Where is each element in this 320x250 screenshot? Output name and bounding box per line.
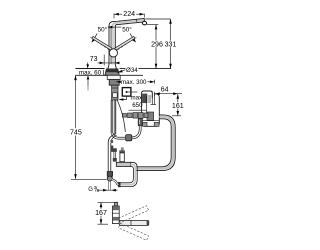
spout bend outer arc and top line — [109, 18, 144, 29]
hose A end fitting — [107, 172, 112, 177]
dimension 224 — [114, 10, 144, 18]
svg-text:G: G — [88, 187, 93, 193]
spray hose arc from shank to loop fitting and plug — [112, 100, 140, 138]
tube B (dark) — [113, 150, 115, 161]
elbow end cap — [118, 182, 121, 187]
washer plate under deck — [107, 75, 120, 79]
svg-text:64: 64 — [161, 86, 169, 93]
aerator nozzle at spout tip — [142, 21, 146, 25]
svg-text:224: 224 — [123, 10, 135, 18]
lever left (50° swing) — [90, 37, 113, 53]
svg-text:167: 167 — [95, 209, 107, 217]
hose bundle below shank — [111, 100, 116, 135]
tube C with cap — [119, 147, 125, 161]
dimension 331 — [145, 19, 177, 69]
label 50° left — [92, 26, 108, 43]
max.60 lower arrow — [87, 75, 90, 90]
outlet pipe elbow from box: right then down then left — [136, 115, 175, 171]
svg-text:745: 745 — [70, 128, 82, 136]
dashed arm swung up — [118, 206, 148, 223]
G 3/8 thread extension lines and dimension — [97, 181, 118, 191]
column base cone — [108, 65, 117, 69]
spout end cap — [143, 18, 145, 22]
svg-text:50°: 50° — [122, 26, 132, 34]
angle reference pointer at column — [108, 26, 122, 29]
svg-text:max. 300: max. 300 — [121, 79, 147, 86]
spray head joint line — [136, 19, 138, 22]
countertop deck top line — [76, 68, 172, 70]
label 50° right — [122, 26, 135, 43]
dimension 167 — [95, 202, 119, 224]
elbow pipe down-left from L-fitting — [120, 162, 137, 186]
countertop deck bottom line — [76, 74, 144, 76]
dimension 73 — [90, 55, 120, 66]
hose A curving left and down — [108, 134, 116, 172]
spout grey fill — [112, 20, 144, 27]
dimension 745 (left) — [69, 75, 107, 179]
label max. 300 dimension — [116, 79, 154, 86]
lever right (50° swing) — [113, 37, 136, 53]
plug connector below row — [138, 118, 142, 125]
faucet column — [109, 26, 115, 65]
L-fitting base under tubes — [116, 162, 130, 166]
bent leader from battery box to shank — [119, 97, 127, 101]
dimension 64 — [155, 86, 183, 95]
ball joint — [109, 49, 117, 57]
hose A ball nut — [107, 176, 112, 181]
svg-text:50°: 50° — [98, 26, 108, 34]
base flange (dark) on deck — [105, 69, 119, 75]
svg-text:331: 331 — [165, 40, 177, 48]
cylinder top nub — [114, 202, 117, 206]
dimension 296 — [147, 25, 163, 69]
max.60 upper arrow — [86, 63, 89, 69]
svg-text:296: 296 — [151, 40, 163, 48]
mounting nut — [109, 80, 119, 86]
control box body — [142, 91, 160, 126]
S-hose lower — [112, 180, 119, 185]
label G 3/8 — [88, 185, 99, 193]
inlet fittings row left of control box — [123, 113, 149, 119]
solid arm (side position) — [119, 220, 149, 225]
svg-text:Ø34: Ø34 — [126, 67, 138, 74]
spout bend inner arc and bottom line — [115, 22, 144, 26]
svg-text:161: 161 — [172, 102, 184, 110]
label Ø34 with diagonal leader — [117, 67, 138, 74]
cylinder body — [112, 206, 119, 224]
svg-text:73: 73 — [90, 56, 98, 63]
dashed arm swung down — [118, 223, 148, 240]
small hose remnant — [111, 140, 114, 143]
loop fitting — [126, 135, 132, 141]
dimension 161 — [171, 94, 184, 116]
label max. 650 — [129, 94, 147, 110]
threaded shank — [112, 85, 118, 100]
svg-text:max. 60: max. 60 — [79, 69, 102, 76]
battery box (square) — [122, 88, 137, 97]
